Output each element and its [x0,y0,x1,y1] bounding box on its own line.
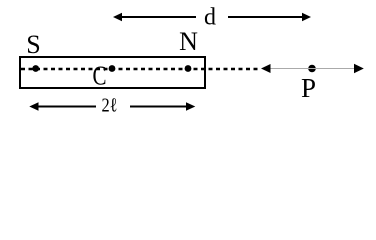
svg-text:C: C [93,61,107,91]
svg-text:N: N [179,27,198,56]
svg-text:d: d [204,5,216,31]
svg-text:P: P [301,73,316,103]
svg-text:2ℓ: 2ℓ [102,95,118,117]
svg-text:S: S [26,30,40,59]
